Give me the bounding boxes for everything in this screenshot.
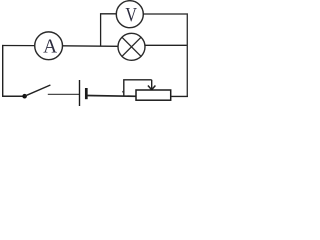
wire: lamp right to right rail bbox=[145, 44, 188, 46]
rheostat R1 body bbox=[136, 90, 171, 100]
slider arrow stem bbox=[151, 80, 153, 89]
svg-text:A: A bbox=[43, 35, 58, 57]
wire: bottom-left rail bbox=[2, 95, 24, 97]
wire: top-left horizontal to ammeter bbox=[2, 45, 35, 47]
wire: left vertical bbox=[2, 45, 4, 97]
svg-text:V: V bbox=[125, 3, 137, 25]
lamp L1 bbox=[118, 33, 145, 60]
slider arrowhead bbox=[148, 86, 152, 90]
ammeter A1 bbox=[35, 32, 63, 60]
battery B1 positive plate bbox=[79, 80, 81, 106]
wire: slider riser bbox=[124, 80, 152, 96]
wire: battery to rheostat rail bbox=[87, 95, 136, 98]
battery B1 negative plate bbox=[85, 88, 88, 99]
wire: switch to battery bbox=[48, 93, 80, 95]
switch S1 lever bbox=[25, 85, 51, 96]
switch S1 pivot bbox=[22, 94, 27, 99]
wire: voltmeter left riser bbox=[101, 14, 117, 46]
wire: right vertical rail bbox=[186, 13, 188, 97]
wire: rheostat to right rail bbox=[171, 95, 188, 97]
junction tick bbox=[123, 91, 124, 95]
voltmeter V1 bbox=[116, 1, 143, 28]
wire: voltmeter right to right rail bbox=[143, 13, 188, 15]
wire: ammeter to lamp horizontal bbox=[63, 45, 119, 48]
